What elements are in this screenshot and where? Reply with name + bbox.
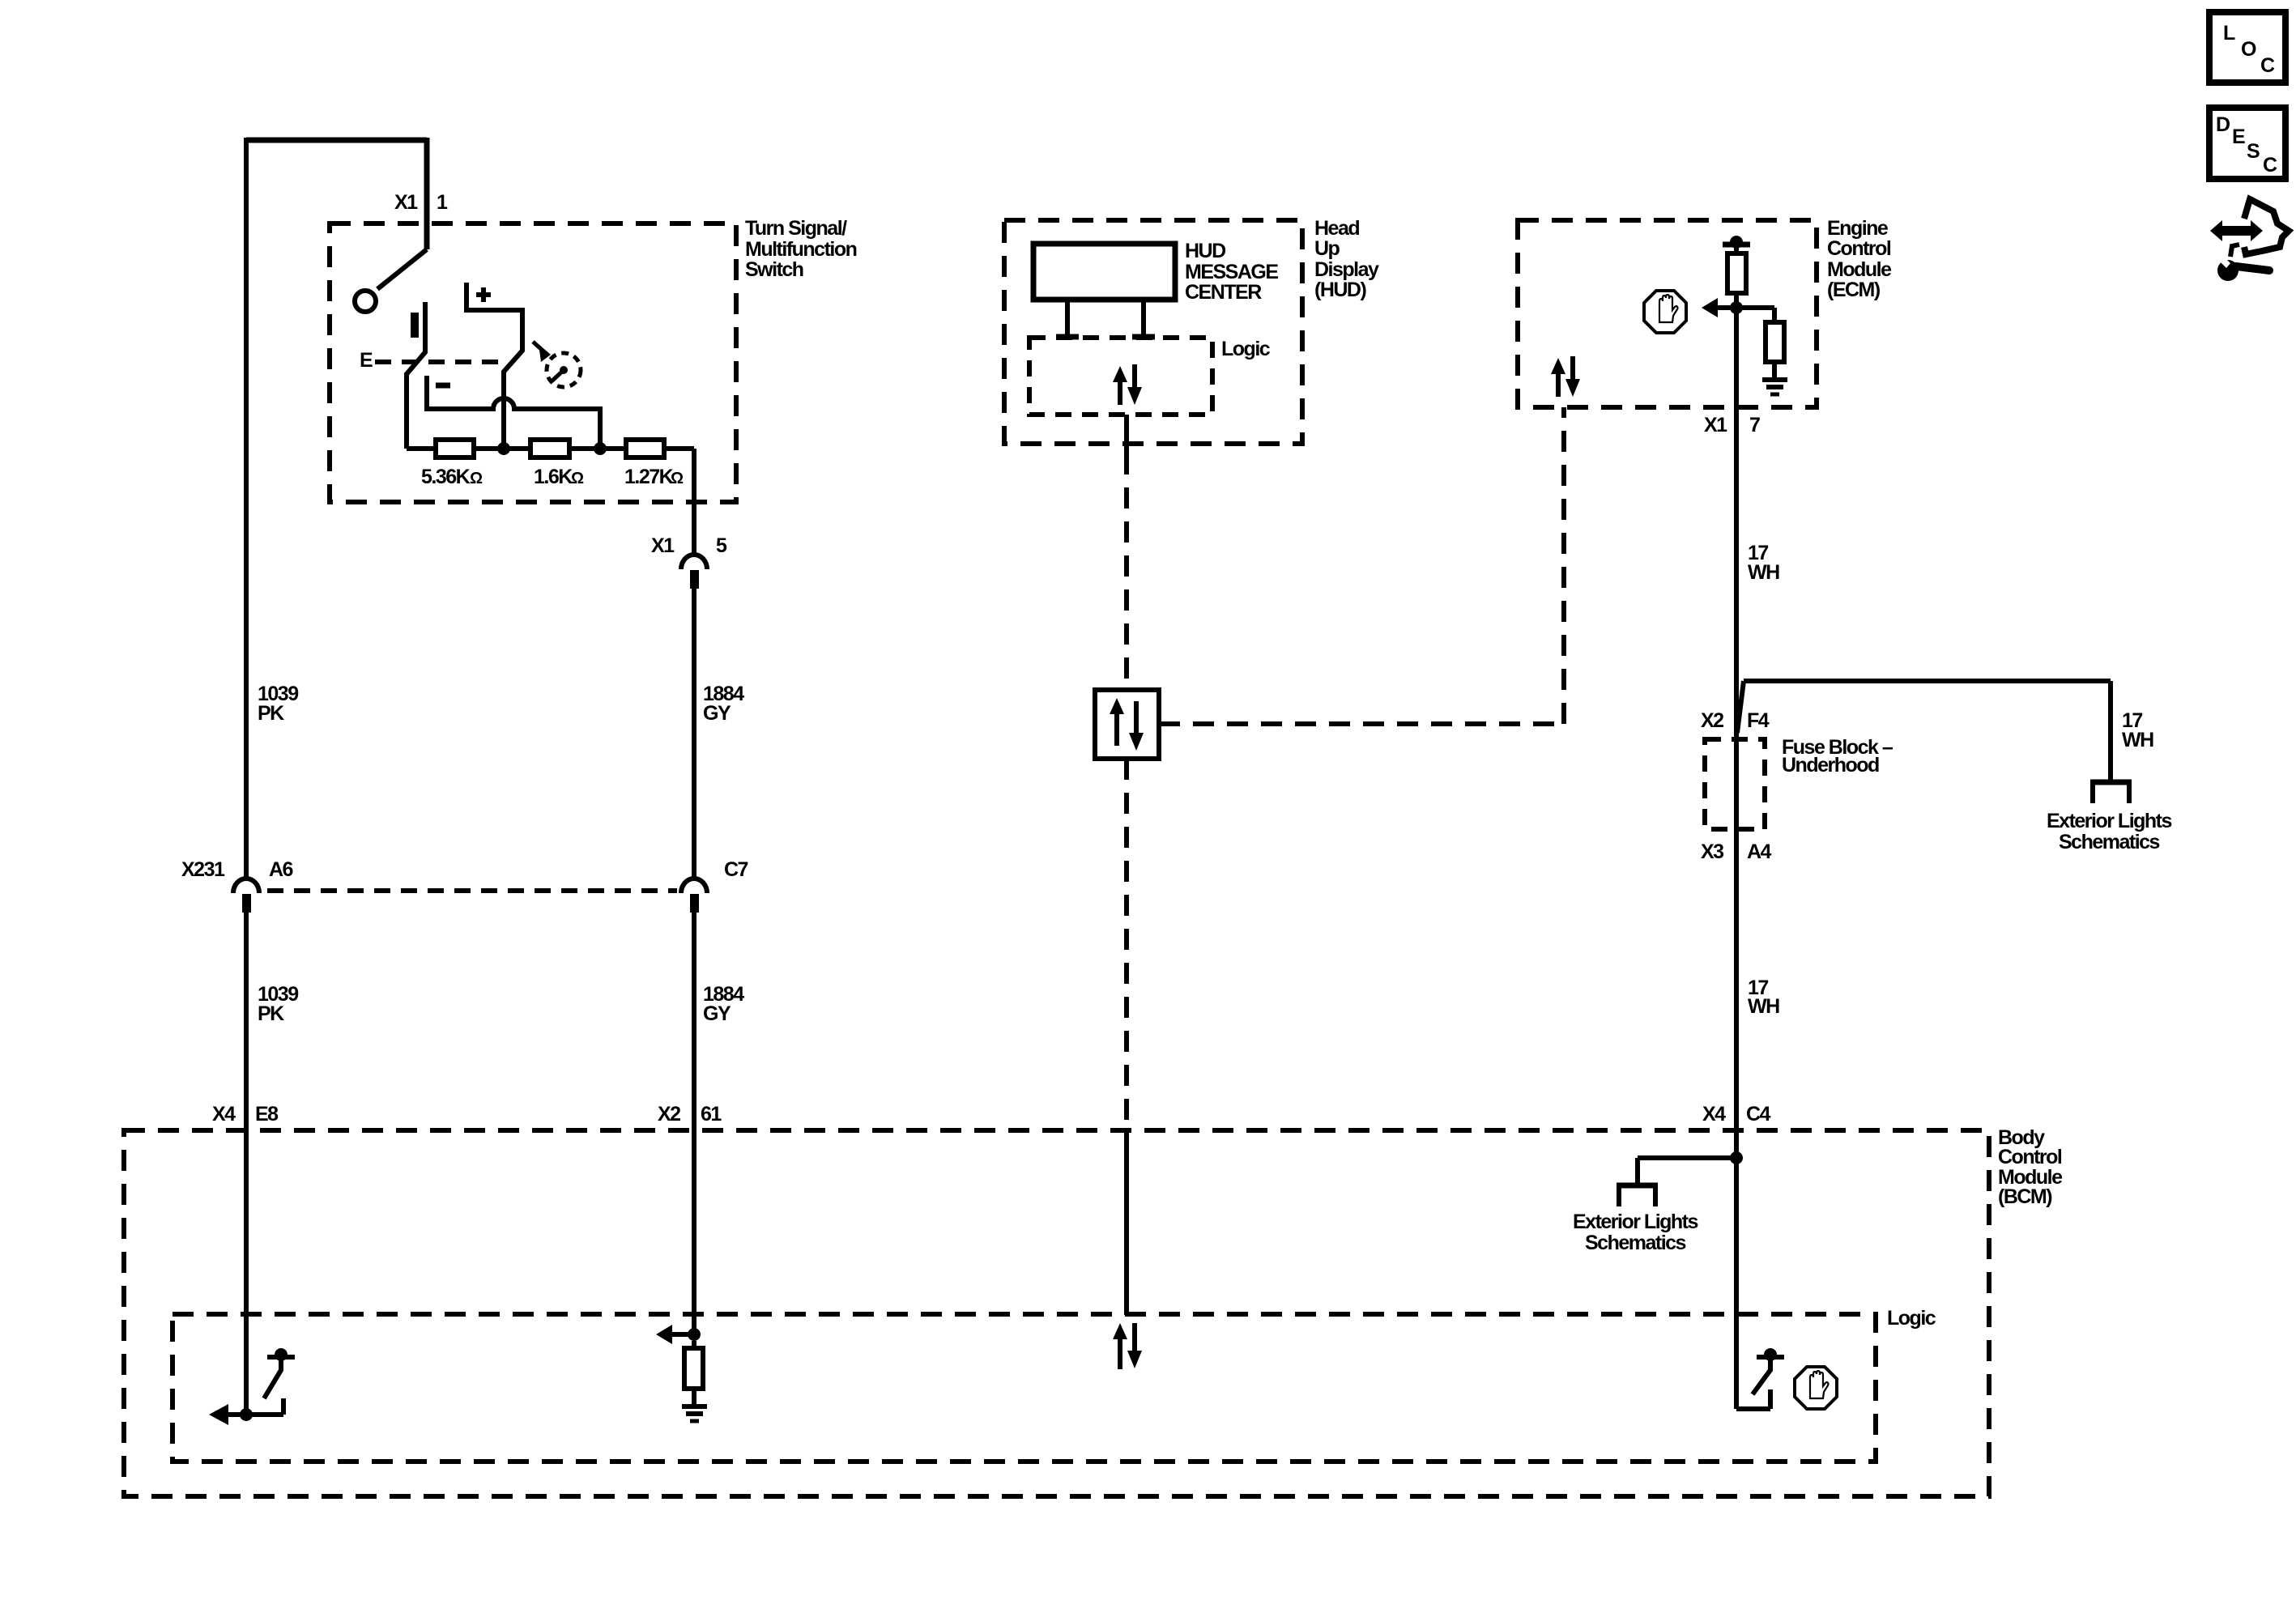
wire label 1039 PK upper <box>258 683 298 725</box>
node X2 61 label <box>658 1103 722 1126</box>
ECM outer dashed box <box>1518 217 1892 407</box>
hand-arrow-wrench service icon <box>2210 199 2289 281</box>
svg-text:Schematics: Schematics <box>1585 1232 1686 1254</box>
resistor 1.6K <box>530 440 584 488</box>
svg-text:CENTER: CENTER <box>1185 281 1262 304</box>
ECM hand-in-octagon symbol <box>1644 291 1686 333</box>
svg-text:L: L <box>2223 22 2235 45</box>
svg-text:Ω: Ω <box>671 470 684 487</box>
svg-text:C4: C4 <box>1746 1103 1771 1126</box>
node X4 E8 label <box>212 1103 279 1126</box>
wire: top-left feed from X1-1 <box>246 138 427 249</box>
switch lever 1 (turn signal stalk) <box>377 249 427 289</box>
svg-text:Ω: Ω <box>571 470 584 487</box>
node X1 1 label <box>394 191 448 214</box>
LOC legend box <box>2209 12 2285 83</box>
serial data arrows in HUD logic <box>1113 364 1142 405</box>
BCM hand-in-octagon symbol <box>1795 1367 1837 1409</box>
svg-text:X1: X1 <box>1704 414 1727 436</box>
svg-text:C7: C7 <box>724 858 748 881</box>
svg-text:(HUD): (HUD) <box>1314 279 1366 301</box>
junction dot wiper node <box>497 442 510 455</box>
BCM outer dashed box <box>124 1126 2063 1496</box>
wire: left vertical 1039 PK circuit <box>244 138 249 1415</box>
svg-text:WH: WH <box>2122 729 2153 751</box>
HUD logic dashed box <box>1029 338 1271 415</box>
connector X231 pin A6 <box>181 858 293 913</box>
wire: resistor chain <box>407 449 694 556</box>
resistor 5.36K <box>421 440 483 488</box>
junction dot minus node <box>594 442 607 455</box>
BCM internal ground <box>682 1406 707 1421</box>
wire: C4 into BCM <box>1736 1130 1770 1409</box>
svg-text:C: C <box>2263 154 2277 177</box>
dimmer wiper wire with plus terminal <box>466 283 522 449</box>
svg-text:O: O <box>2241 38 2256 61</box>
wire: dashed in-line connector link X231 <box>267 888 677 893</box>
wire label 17 WH right <box>2122 709 2153 751</box>
svg-text:WH: WH <box>1748 561 1779 584</box>
open contact circle <box>355 291 376 312</box>
svg-text:X2: X2 <box>658 1103 680 1126</box>
svg-text:Exterior Lights: Exterior Lights <box>1573 1211 1698 1233</box>
svg-text:Ω: Ω <box>470 470 483 487</box>
svg-text:E: E <box>360 349 373 372</box>
serial data line to BCM (dashed then solid) <box>1124 759 1129 1315</box>
svg-text:E8: E8 <box>255 1103 279 1126</box>
svg-text:Logic: Logic <box>1887 1307 1936 1330</box>
svg-text:Display: Display <box>1314 258 1379 281</box>
svg-text:Control: Control <box>1998 1146 2062 1168</box>
fuse block underhood dashed box <box>1701 709 1893 863</box>
svg-text:PK: PK <box>258 702 284 725</box>
svg-text:GY: GY <box>703 1002 731 1025</box>
ECM monitor arrow to hand symbol <box>1702 298 1736 317</box>
svg-text:PK: PK <box>258 1002 284 1025</box>
BCM output driver switch <box>1753 1348 1784 1394</box>
svg-text:F4: F4 <box>1747 709 1770 732</box>
svg-text:5: 5 <box>716 534 727 557</box>
connector C7 <box>681 858 748 913</box>
svg-text:7: 7 <box>1749 414 1760 436</box>
svg-text:Exterior Lights: Exterior Lights <box>2047 810 2172 832</box>
serial data link to ECM (dashed) <box>1159 407 1564 724</box>
svg-text:S: S <box>2247 140 2260 163</box>
svg-text:X1: X1 <box>651 534 675 557</box>
wire label 1884 GY lower <box>703 983 744 1025</box>
svg-text:Turn Signal/: Turn Signal/ <box>745 217 847 240</box>
svg-text:Module: Module <box>1827 258 1892 281</box>
BCM pull resistor <box>684 1341 703 1404</box>
wire label 17 WH lower <box>1748 977 1779 1018</box>
svg-text:61: 61 <box>701 1103 722 1126</box>
svg-text:X4: X4 <box>1702 1103 1726 1126</box>
svg-text:(ECM): (ECM) <box>1827 279 1881 301</box>
svg-text:A4: A4 <box>1747 840 1772 863</box>
svg-text:X1: X1 <box>394 191 418 214</box>
svg-text:Head: Head <box>1314 217 1359 240</box>
connector X1 pin 5 <box>651 534 727 589</box>
wire: 17 WH from ECM <box>1736 308 1779 1130</box>
serial data symbol box <box>1095 690 1159 759</box>
svg-text:GY: GY <box>703 702 731 725</box>
DESC legend box <box>2209 108 2285 179</box>
serial data line HUD (dashed) <box>1124 415 1129 690</box>
svg-text:Logic: Logic <box>1221 338 1271 360</box>
BCM left junction dot <box>240 1408 253 1421</box>
svg-text:1: 1 <box>437 191 448 214</box>
wire label 1039 PK lower <box>258 983 298 1025</box>
svg-text:C: C <box>2260 54 2275 77</box>
svg-text:WH: WH <box>1748 995 1779 1018</box>
svg-text:Schematics: Schematics <box>2059 831 2160 853</box>
off-page connector exterior lights BCM <box>1573 1185 1698 1254</box>
svg-text:A6: A6 <box>269 858 293 881</box>
node X4 C4 label <box>1702 1103 1771 1126</box>
svg-text:Engine: Engine <box>1827 217 1889 240</box>
gauge icon (dimmer) <box>533 342 581 387</box>
ECM serial data arrows <box>1551 356 1580 397</box>
svg-text:HUD: HUD <box>1185 240 1225 262</box>
off-page connector exterior lights right <box>2047 782 2172 853</box>
resistor 1.27K <box>624 440 684 488</box>
ECM sense node dot <box>1730 301 1743 314</box>
wire: branch to exterior lights feed <box>1737 681 2111 780</box>
svg-text:1.27K: 1.27K <box>624 466 674 488</box>
svg-text:MESSAGE: MESSAGE <box>1185 261 1278 283</box>
node X1 7 label <box>1704 414 1760 436</box>
HUD message center display rect <box>1033 240 1278 304</box>
turn signal multifunction switch dashed box S1 <box>330 217 857 502</box>
BCM right: sense arrow <box>656 1325 701 1344</box>
BCM output junction dot <box>1730 1151 1743 1164</box>
BCM left input switch <box>209 1348 295 1425</box>
svg-text:X3: X3 <box>1701 840 1723 863</box>
wire: display stubs <box>1056 300 1155 337</box>
svg-text:1.6K: 1.6K <box>534 466 573 488</box>
svg-text:E: E <box>2232 126 2245 148</box>
wire label 1884 GY upper <box>703 683 744 725</box>
contact bar <box>411 313 419 338</box>
svg-text:X4: X4 <box>212 1103 236 1126</box>
svg-text:Multifunction: Multifunction <box>745 238 857 261</box>
svg-text:X2: X2 <box>1701 709 1723 732</box>
ECM internal voltage supply <box>1723 236 1750 253</box>
switch lever 2 (E contact) <box>407 302 425 449</box>
BCM serial arrows <box>1113 1323 1142 1369</box>
node E label and dashed line <box>360 349 508 372</box>
ECM internal resistor to ground <box>1736 308 1784 377</box>
svg-text:Control: Control <box>1827 237 1891 260</box>
svg-text:5.36K: 5.36K <box>421 466 471 488</box>
minus terminal wire with hop over wiper <box>427 376 600 449</box>
BCM logic dashed box <box>173 1307 1936 1462</box>
svg-text:X231: X231 <box>181 858 225 881</box>
svg-text:Underhood: Underhood <box>1782 754 1879 777</box>
ECM internal ground <box>1762 380 1787 394</box>
wire: branch to exterior lights out <box>1638 1158 1736 1183</box>
svg-text:(BCM): (BCM) <box>1998 1185 2052 1208</box>
svg-text:Up: Up <box>1314 237 1340 260</box>
svg-text:D: D <box>2216 113 2230 136</box>
svg-text:Switch: Switch <box>745 258 803 281</box>
ECM pull-up resistor <box>1727 253 1746 308</box>
HUD outer dashed box <box>1004 217 1379 444</box>
wire: 1884 GY upper <box>692 589 696 1334</box>
